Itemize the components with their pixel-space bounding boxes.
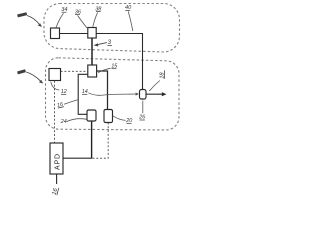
svg-text:12: 12 xyxy=(61,89,67,95)
dashed wire F down to junction xyxy=(92,123,108,159)
wire junction left to APD xyxy=(63,157,92,159)
box C splitter xyxy=(88,65,97,77)
box D local oscillator xyxy=(49,69,61,81)
wire A to B xyxy=(60,33,88,35)
transmitter assembly dashed enclosure xyxy=(44,4,180,53)
output arrow from G xyxy=(146,93,163,95)
wire B right then down to G xyxy=(96,34,142,90)
svg-text:14: 14 xyxy=(82,89,88,95)
label 16 leader to bypass wire xyxy=(57,102,64,109)
APD detector box xyxy=(50,143,63,174)
label 26 leader to box G bottom xyxy=(142,101,144,114)
label 20 leader from box F xyxy=(113,116,126,121)
bypass wire C left down to E xyxy=(78,74,88,114)
box A laser xyxy=(51,28,60,39)
label 2 with arrow to receiver enclosure xyxy=(18,71,26,73)
box E mixer xyxy=(87,110,96,121)
wire C right then down to F xyxy=(97,71,108,110)
receiver assembly dashed enclosure xyxy=(46,58,180,130)
wire APD bottom stub xyxy=(56,174,58,184)
box B modulator xyxy=(88,28,96,39)
label 1 with arrow to transmitter enclosure xyxy=(18,14,27,16)
label 18 leader to box G xyxy=(159,70,165,79)
dashed wire D down to APD xyxy=(54,81,56,143)
dashed wire D to C xyxy=(61,70,88,72)
wire E down to junction xyxy=(91,121,93,158)
box F mixer 2 xyxy=(104,110,113,123)
label 16 below APD xyxy=(52,186,60,195)
beam wire B down to C xyxy=(91,38,93,65)
svg-text:24: 24 xyxy=(60,119,67,125)
svg-text:APD: APD xyxy=(54,153,61,170)
box G output coupler xyxy=(140,90,147,100)
